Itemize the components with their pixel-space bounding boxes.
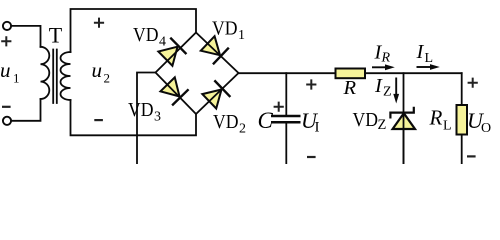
resistor R body [336,69,366,79]
svg-text:L: L [443,119,452,134]
resistor RL body [457,105,468,135]
plus sign capacitor [274,102,284,112]
svg-text:2: 2 [239,122,246,137]
svg-text:1: 1 [13,71,20,86]
wire zener branch [403,73,405,164]
capacitor C plates [271,115,301,118]
minus sign u1 [2,106,11,108]
diode VD3 (left node to bottom node) [159,76,188,105]
wire DC plus rail [239,72,462,74]
arrow IL [417,64,440,70]
svg-text:u: u [0,58,11,82]
transformer core [53,50,57,104]
transformer primary winding [41,47,50,99]
diode VD2 (bottom node to right node) [201,80,230,109]
plus sign UI [306,79,316,89]
diode VD4 (left node to top node) [157,38,186,67]
svg-text:R: R [343,77,357,99]
plus sign UO [468,78,478,88]
minus sign UI [307,156,316,158]
arrow IZ [393,78,399,104]
minus sign u2 [94,119,103,121]
wire capacitor branch [285,73,287,164]
svg-text:VD: VD [133,24,159,46]
svg-text:R: R [429,106,443,130]
svg-text:I: I [315,120,320,136]
plus sign u1 [1,36,11,46]
zener diode VDZ triangle [393,113,415,129]
wire top-left feed to primary [11,26,40,47]
terminal top-left [3,22,11,30]
transformer secondary winding [61,52,71,100]
wire secondary top to bridge top node [71,9,197,52]
wire DC minus from bridge left node down [137,73,156,165]
svg-text:u: u [92,58,103,82]
svg-text:Z: Z [378,117,387,133]
svg-text:O: O [481,121,491,136]
zener cathode bar with ticks [390,107,413,119]
svg-text:3: 3 [154,110,161,125]
wire primary bottom to terminal [11,99,40,121]
svg-text:VD: VD [353,109,379,131]
svg-text:VD: VD [213,111,239,133]
bridge diamond wiring [156,33,239,115]
svg-text:L: L [425,51,434,66]
minus sign UO [467,155,476,157]
svg-text:T: T [49,22,63,47]
diode VD1 (top node to right node) [200,35,229,64]
zener wire through symbol [403,112,405,164]
svg-text:1: 1 [238,28,245,43]
wire secondary bottom to bridge bottom node [71,100,197,135]
arrow IR [372,64,395,70]
svg-text:VD: VD [212,17,238,39]
svg-text:I: I [374,75,383,97]
svg-text:R: R [381,51,391,66]
wire right branch down through RL [461,73,463,164]
svg-text:Z: Z [383,85,392,100]
svg-text:I: I [416,41,425,63]
svg-text:VD: VD [128,99,154,121]
svg-text:2: 2 [104,71,111,86]
terminal bottom-left [3,117,11,125]
svg-text:C: C [258,108,274,133]
svg-text:4: 4 [159,35,166,50]
plus sign u2 [94,18,104,28]
